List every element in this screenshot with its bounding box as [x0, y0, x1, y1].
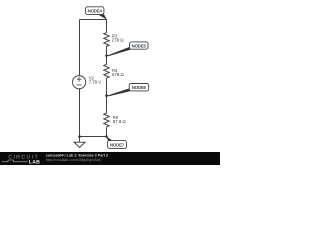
footer bar	[0, 152, 220, 165]
wire top horizontal	[80, 19, 107, 21]
svg-text:NODE6: NODE6	[132, 85, 147, 90]
node flag NODE6	[106, 84, 148, 97]
resistor R5	[104, 113, 109, 127]
canvas background	[0, 0, 220, 165]
resistor R3	[104, 33, 109, 47]
ground	[74, 142, 85, 147]
svg-text:LAB: LAB	[29, 159, 40, 165]
wire left vertical upper	[79, 20, 81, 76]
V2 value label	[89, 76, 102, 85]
CircuitLab logo waveform	[2, 160, 28, 162]
node dot junction NODE5	[105, 54, 108, 57]
svg-text:7.78 V: 7.78 V	[89, 80, 102, 85]
node dot junction bottom-left	[78, 135, 81, 138]
svg-text:NODE4: NODE4	[88, 9, 103, 14]
wire bottom horizontal	[80, 136, 107, 138]
node flag NODE7	[106, 136, 127, 148]
wire right vertical	[106, 20, 108, 137]
R3 label	[112, 34, 124, 43]
node dot junction NODE6	[105, 94, 108, 97]
svg-text:87.8 Ω: 87.8 Ω	[113, 119, 127, 124]
R4 label	[112, 68, 124, 77]
svg-text:678 Ω: 678 Ω	[112, 72, 124, 77]
wire left vertical lower	[79, 89, 81, 142]
svg-text:278 Ω: 278 Ω	[112, 37, 124, 42]
resistor R4	[104, 64, 109, 78]
node dot junction NODE7	[105, 135, 108, 138]
voltage source V2	[73, 76, 86, 89]
svg-text:NODE5: NODE5	[132, 44, 147, 49]
node flag NODE5	[106, 42, 148, 56]
R5 label	[113, 115, 127, 124]
svg-text:NODE7: NODE7	[110, 143, 125, 148]
svg-text:http://circuitlab.com/c/88g4hj: http://circuitlab.com/c/88g4hjkm548	[46, 158, 101, 162]
node flag NODE4	[86, 7, 108, 20]
